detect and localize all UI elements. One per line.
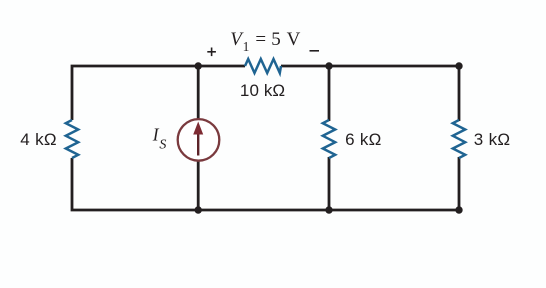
wire: current source branch upper bbox=[197, 66, 200, 120]
polarity plus sign bbox=[207, 48, 216, 57]
wire: current source branch lower bbox=[197, 161, 200, 211]
wire: top-left L (left rail upper + top rail to 10k resistor) bbox=[72, 66, 245, 120]
resistor 6 kOhm (middle branch zigzag) bbox=[323, 120, 335, 158]
svg-text:4 kΩ: 4 kΩ bbox=[20, 130, 57, 149]
current source IS: arrow shaft bbox=[197, 133, 199, 156]
svg-text:IS: IS bbox=[152, 125, 167, 153]
wire: 6k branch lower bbox=[328, 157, 331, 210]
svg-text:6 kΩ: 6 kΩ bbox=[345, 130, 382, 149]
wire: 6k branch upper bbox=[328, 66, 331, 121]
svg-text:3 kΩ: 3 kΩ bbox=[474, 130, 511, 149]
resistor 3 kOhm (right branch zigzag) bbox=[453, 120, 465, 158]
wire: top rail from 10k resistor to top-right corner bbox=[281, 65, 459, 68]
svg-text:V1=5V: V1=5V bbox=[230, 29, 300, 54]
node: bottom-right corner junction bbox=[455, 206, 462, 213]
node: top junction at current source branch bbox=[195, 62, 202, 69]
resistor 10 kOhm (top rail horizontal zigzag) bbox=[245, 59, 281, 73]
current source IS: arrow head bbox=[193, 122, 203, 135]
node: bottom junction at current source branch bbox=[195, 206, 202, 213]
current source IS: circle bbox=[178, 119, 220, 161]
node: top junction at 6k branch bbox=[325, 62, 332, 69]
node: top-right corner junction bbox=[455, 62, 462, 69]
polarity minus sign bbox=[310, 50, 320, 52]
svg-text:10 kΩ: 10 kΩ bbox=[240, 81, 285, 100]
resistor 4 kOhm (left branch zigzag) bbox=[66, 120, 78, 158]
wire: right rail lower bbox=[458, 157, 461, 210]
wire: bottom-left L (left rail lower + full bottom rail) bbox=[72, 158, 459, 210]
node: bottom junction at 6k branch bbox=[325, 206, 332, 213]
wire: right rail upper bbox=[458, 66, 461, 121]
